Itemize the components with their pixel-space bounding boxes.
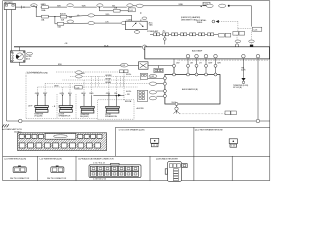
amp input pin circle (142, 45, 146, 49)
svg-text:100A: 100A (41, 9, 46, 12)
dashed drop sp1 a (37, 87, 39, 95)
panel divider 5 (231, 156, 233, 180)
svg-text:SPEAKER LH: SPEAKER LH (59, 115, 71, 118)
svg-text:#2 #2 DOOR SPEAKER (4-DR): #2 #2 DOOR SPEAKER (4-DR) (119, 128, 145, 131)
svg-text:RED: RED (89, 93, 94, 95)
wire row3 (64, 22, 88, 24)
connector circle left (19, 119, 23, 123)
door speaker icon LH (151, 138, 159, 146)
speaker panel row top line (115, 126, 269, 128)
dashed drop x237 lower (236, 35, 238, 44)
svg-text:TIMES: TIMES (197, 22, 203, 24)
junction row2 (54, 16, 55, 17)
svg-text:AUDIO AMPLIF (B): AUDIO AMPLIF (B) (182, 88, 198, 91)
svg-text:W/G: W/G (106, 14, 110, 16)
svg-text:L-01 TWEETER LH (4-DR): L-01 TWEETER LH (4-DR) (4, 159, 26, 161)
panel1 connector icon (13, 166, 26, 173)
dashed drop sp4 b (115, 77, 117, 96)
panel divider 1 (37, 156, 39, 180)
svg-text:A-02 RB: A-02 RB (137, 107, 145, 110)
svg-text:WH TW CONNECTOR: WH TW CONNECTOR (10, 178, 30, 180)
svg-text:L-02 TWEETER RH (4-DR): L-02 TWEETER RH (4-DR) (40, 159, 63, 161)
svg-text:DENOISER TO A/C: DENOISER TO A/C (181, 19, 198, 22)
oval on dashed 237 (235, 40, 241, 43)
svg-text:A-01 RADIO ANT W-T.B: A-01 RADIO ANT W-T.B (2, 128, 22, 131)
svg-text:4-DR+: 4-DR+ (126, 74, 132, 76)
svg-text:L/W: L/W (176, 62, 179, 64)
band bottom pin 4 (44, 143, 50, 148)
heavy wire to amplifier (14, 46, 142, 48)
row3 drop (54, 17, 56, 24)
stub wire a4 (205, 59, 208, 73)
svg-text:B/W: B/W (209, 62, 213, 64)
connector box A left of amp (140, 73, 147, 79)
band bottom pin 1 (19, 143, 25, 148)
panel divider 2 (75, 156, 77, 180)
svg-text:2 4 6 8 10 12 14: 2 4 6 8 10 12 14 (93, 179, 107, 181)
amp bottom pin 6 (256, 54, 260, 58)
svg-text:B/D RA: B/D RA (125, 100, 132, 103)
svg-text:(DEFROST) (HEATER): (DEFROST) (HEATER) (181, 16, 201, 19)
band key slot (45, 134, 76, 140)
bose amp top pin 4 (205, 73, 208, 76)
connector box C small (154, 66, 163, 73)
connector oval row3 c (121, 22, 127, 25)
amp bottom pin 2 (195, 54, 199, 58)
svg-text:T.(B): T.(B) (149, 25, 153, 27)
stub wire a1 (173, 59, 176, 73)
wire row1 to right (49, 6, 67, 8)
connector box B left of amp (137, 90, 147, 101)
ignition bottom pin (19, 62, 174, 65)
antenna lead boxes (225, 111, 236, 115)
svg-text:(B-T): (B-T) (26, 58, 30, 60)
fuse row2 second (60, 12, 67, 21)
svg-text:4-DR: 4-DR (241, 70, 246, 72)
dashed option box right (98, 100, 135, 119)
band bottom pin 6 (61, 143, 67, 148)
page border left (2, 1, 4, 181)
wire A to amp (148, 77, 164, 79)
svg-text:BLU: BLU (68, 93, 72, 95)
wire row2 d (94, 14, 131, 16)
solid wire over sp3 (93, 94, 124, 96)
connector oval A (149, 74, 157, 78)
bose amp left pin 4 (163, 95, 166, 98)
connector oval row1 e (127, 4, 133, 7)
pin circle speaker note (242, 81, 245, 84)
wire row2 b (49, 16, 60, 18)
band top pin 7 (91, 134, 96, 138)
band bottom pin 7 (70, 143, 76, 148)
fuse branch row1b (114, 7, 121, 12)
band top pin 3 (32, 134, 37, 138)
wire B2 to amp (157, 95, 164, 97)
bus wire y36.5 (150, 33, 218, 35)
band bottom pin 2 (28, 143, 34, 148)
dashed speaker feed y87 (38, 86, 138, 88)
speaker 1 tweeter LH (34, 93, 48, 118)
bose amp top pin 1 (173, 73, 176, 76)
dashed drop sp3 b (90, 77, 92, 96)
band bottom pin 9 (86, 143, 92, 148)
diode arrow (216, 20, 219, 23)
speaker 2 door LH (59, 93, 73, 118)
node circle hot feed (212, 20, 215, 23)
wire A2 to amp (157, 83, 164, 85)
bose amp left pin 3 (163, 90, 166, 93)
dashed jumper 2 (120, 77, 122, 88)
wire B1 to amp (157, 90, 164, 92)
connector oval feed lower (75, 86, 82, 90)
stub wire a2 (187, 59, 190, 73)
band top pin 1 (19, 134, 24, 138)
speaker 4 door RH (105, 93, 119, 118)
connector oval row1b (128, 8, 135, 12)
amp right output wire (257, 59, 259, 119)
bose amp left pin 1 (163, 77, 166, 80)
ACC elbow to amp pin (173, 66, 175, 75)
junction dot row1 right (228, 5, 230, 7)
panel divider 3 (149, 156, 151, 180)
svg-text:W+R: W+R (172, 102, 177, 104)
amp pin number row (178, 60, 268, 61)
bose amp left pin 2 (163, 82, 166, 85)
amp bottom pin 1 (186, 54, 190, 58)
band bottom pin 3 (36, 143, 42, 148)
band top pin 6 (84, 134, 89, 138)
connector oval row3 a (67, 20, 74, 23)
antenna symbol (173, 106, 179, 114)
dotted antenna lead (179, 113, 225, 115)
relay bottom oval (134, 30, 139, 34)
pin circle top box x237 (235, 44, 238, 47)
pin grid connector (89, 163, 141, 177)
wire row3 elbow to relay (125, 23, 127, 25)
fuse row3 (55, 22, 64, 28)
amp bottom pin 3 (204, 54, 208, 58)
relay unit box (125, 21, 147, 29)
connector oval row3 b (88, 22, 94, 25)
dashed speaker feed y83.5 (45, 83, 149, 85)
dashed option box premium sound (26, 72, 124, 118)
fuse ROOM 15A (41, 15, 50, 21)
band top pin 8 (97, 134, 102, 138)
svg-text:WH TW CONNECTOR: WH TW CONNECTOR (47, 178, 67, 180)
wire row2 a (36, 16, 40, 18)
band bottom pin 8 (78, 143, 84, 148)
junction row1 branch (99, 7, 100, 8)
pin square black top box (250, 45, 253, 48)
branch row1b drop (99, 7, 113, 11)
svg-text:+ DR: + DR (125, 94, 130, 96)
ground symbol (2, 124, 9, 127)
dashed drop sp4 a (108, 80, 110, 95)
panel2 connector icon (51, 166, 64, 173)
amp top pin number row (150, 48, 182, 49)
fuse MAIN 100A (41, 3, 50, 12)
connector oval row1 h (219, 4, 226, 7)
dashed wire hot to drop (219, 21, 238, 23)
dashed drop sp3 a (83, 80, 85, 95)
door speaker icon RH (229, 139, 237, 147)
oval on dashed 252 (249, 40, 255, 43)
svg-text:GRN: GRN (106, 93, 111, 95)
ignition top pin (18, 47, 20, 51)
page border bottom (3, 180, 270, 182)
svg-text:RH (4-DR): RH (4-DR) (80, 116, 89, 118)
wire row1b (120, 10, 128, 12)
band top pin 5 (78, 134, 83, 138)
wire battery to fuse row1 (16, 6, 31, 8)
svg-text:(2)-#2 HIGH SPEAKER RH BOSE: (2)-#2 HIGH SPEAKER RH BOSE (195, 128, 224, 131)
dashed drop sp2 a (62, 87, 64, 95)
ignition switch labels (27, 52, 33, 55)
svg-text:GRN: GRN (81, 93, 86, 95)
svg-text:1 3 5 7 9 11 13: 1 3 5 7 9 11 13 (93, 162, 106, 164)
amp bottom pin 4 (214, 54, 218, 58)
connector pair boxes (233, 32, 245, 36)
svg-text:GRN: GRN (35, 93, 40, 95)
junction node row1 (36, 6, 37, 7)
wire row1 d (103, 6, 127, 8)
bose amp lower box (165, 75, 220, 105)
svg-text:AUD B AMP: AUD B AMP (192, 49, 203, 52)
bus drop pin (164, 38, 167, 41)
connector oval row1 b (67, 4, 73, 7)
bus drop to amp (164, 36, 166, 38)
svg-text:(4-DR) RADIO RECEIVER: (4-DR) RADIO RECEIVER (156, 158, 178, 161)
connector box C-18 top (203, 2, 210, 5)
connector ovals on feeds (75, 71, 82, 78)
wire row1 to drop (230, 6, 252, 27)
long ground bus wire (7, 120, 270, 122)
dashed divider sp3 (75, 94, 77, 118)
speaker panel divider mid (193, 127, 195, 156)
svg-text:GRN: GRN (60, 93, 65, 95)
svg-text:12-PIN AUDIO (BOSE) AMP CONNEC: 12-PIN AUDIO (BOSE) AMP CONNECTOR (78, 158, 114, 161)
bose amp top pin 2 (187, 73, 190, 76)
svg-text:4-DR+: 4-DR+ (126, 91, 132, 93)
connector oval row1 f (136, 4, 143, 7)
connector face band (18, 133, 107, 151)
svg-text:SPEAKER RH: SPEAKER RH (105, 115, 118, 118)
dashed drop sp2 b (69, 84, 71, 95)
connector oval row1 (31, 4, 38, 8)
speaker 3 tweeter RH (80, 93, 94, 118)
svg-text:SP L-R (B): SP L-R (B) (233, 87, 242, 89)
bose amp top pin 5 (214, 73, 217, 76)
dashed divider sp2 (56, 94, 58, 118)
connector oval row1 c (97, 4, 103, 7)
bottom panels top line (3, 155, 270, 157)
connector circle right (256, 119, 260, 123)
svg-text:GRN: GRN (54, 85, 59, 87)
dashed drop sp1 b (44, 84, 46, 95)
wire row3 b (94, 22, 121, 24)
bose amp bottom pin (175, 103, 178, 106)
wire row1 c (73, 6, 97, 8)
ignition switch S1 (11, 51, 26, 62)
wire row2 c (67, 16, 88, 17)
svg-text:GRN/R: GRN/R (105, 78, 112, 80)
connector oval row1 g (206, 4, 213, 7)
band bottom pin 10 (95, 143, 101, 148)
radio receiver unit (165, 161, 187, 181)
svg-text:4-DR PREMIUM SOUND: 4-DR PREMIUM SOUND (27, 73, 48, 75)
page border top (3, 0, 270, 2)
dashed jumper 1 (95, 77, 97, 88)
speaker feed stub wire (242, 59, 244, 78)
band top pin 2 (26, 134, 31, 138)
svg-text:W/R: W/R (82, 5, 86, 7)
svg-text:W+R: W+R (104, 45, 109, 47)
dashed drop x237.9 lower2 (237, 29, 239, 32)
panel divider 4 (193, 156, 195, 180)
bose amp top pin 3 (195, 73, 198, 76)
row2 drop wire (35, 7, 37, 17)
junction arrow on wire (118, 94, 122, 96)
svg-text:GRN/B: GRN/B (105, 82, 112, 84)
connector oval B1 (149, 91, 156, 94)
connector box C-05 right (252, 27, 261, 31)
battery (4, 1, 15, 9)
dashed speaker feed y80 (63, 79, 141, 81)
connector oval A2 (149, 82, 156, 85)
svg-text:BATTERY: BATTERY (4, 1, 13, 4)
audio amp main box (145, 47, 270, 59)
band bottom pin 5 (53, 143, 59, 148)
inline connector on ACC wire (139, 62, 149, 69)
connector oval ACC (120, 63, 128, 67)
svg-text:B/W: B/W (58, 64, 62, 66)
svg-text:LH (4-DR): LH (4-DR) (34, 116, 43, 118)
relay pin top right with oval (141, 12, 147, 21)
svg-text:AUDIO: AUDIO (60, 12, 66, 15)
battery terminal marks (22, 6, 25, 9)
down arrow speaker note (241, 78, 245, 81)
bus end boxes (219, 33, 231, 37)
dashed speaker feed y76.5 (70, 76, 140, 78)
connector oval B2 (149, 97, 156, 100)
connector oval row2 (88, 14, 94, 17)
battery ground vertical wire (6, 10, 8, 122)
relay coil pin top left (131, 15, 133, 21)
dashed link to C-05 (238, 28, 252, 30)
svg-text:GRN/W: GRN/W (105, 75, 112, 77)
stub wire a3 (195, 59, 198, 73)
speaker panel divider left (114, 127, 116, 156)
connector box pair mid (120, 70, 129, 73)
page border right (269, 1, 271, 181)
amp bottom pin 5 (242, 54, 246, 58)
svg-text:POWER ANT: POWER ANT (147, 30, 159, 33)
dashed drop x237.9 (237, 22, 239, 29)
wire row1 e (133, 5, 206, 7)
battery second vertical wire (11, 10, 13, 51)
stub wire a5 (214, 59, 217, 73)
band top pin 4 (38, 134, 43, 138)
dashed drop right (251, 31, 253, 44)
